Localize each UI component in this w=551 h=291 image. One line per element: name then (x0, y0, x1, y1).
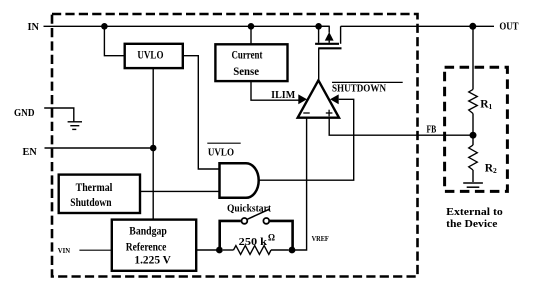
wire IN to current sense input (250, 26, 252, 44)
svg-text:Current: Current (232, 50, 263, 62)
svg-text:GND: GND (14, 107, 35, 119)
svg-text:250 k: 250 k (239, 237, 267, 248)
wire VIN to bandgap (79, 249, 111, 251)
label ILIM (271, 90, 296, 101)
gate AND (220, 163, 259, 198)
wire OUT to R1 (472, 26, 474, 89)
label R1 (480, 99, 492, 112)
ground symbol (GND pin) (68, 122, 82, 130)
svg-text:Thermal: Thermal (76, 182, 113, 194)
switch quickstart branch (220, 209, 293, 250)
block thermal shutdown (59, 175, 140, 213)
svg-text:Bandgap: Bandgap (129, 225, 167, 237)
wire UVLO output to AND gate top input (183, 56, 220, 169)
block UVLO (125, 44, 183, 68)
label SHUTDOWN with overline (332, 82, 403, 94)
svg-text:Shutdown: Shutdown (70, 197, 112, 209)
node EN junction (150, 145, 157, 152)
pin label OUT (499, 22, 518, 33)
label Quickstart (227, 203, 271, 214)
svg-text:External to: External to (446, 207, 503, 218)
svg-text:VREF: VREF (312, 235, 329, 243)
resistor R2 (vertical zigzag) (469, 135, 478, 182)
resistor R1 (vertical zigzag) (469, 89, 478, 135)
external divider dashed box (445, 67, 508, 191)
block bandgap reference (112, 220, 196, 271)
wire UVLO bottom / EN net down to bandgap (152, 68, 154, 220)
svg-text:the Device: the Device (446, 219, 498, 230)
pin label EN (23, 146, 37, 158)
svg-text:FB: FB (427, 124, 437, 135)
pin label VIN (58, 246, 71, 255)
label 250 k Ohm (239, 232, 275, 248)
wire current sense output (ILIM) (251, 81, 302, 100)
wire error amp non-inverting input to FB (329, 118, 473, 136)
node quickstart left junction (216, 247, 223, 254)
wire PMOS gate to error amp output (318, 48, 320, 81)
pin label FB (427, 124, 437, 135)
svg-text:Reference: Reference (126, 241, 167, 253)
wire EN (45, 147, 154, 149)
pin label IN (28, 21, 40, 33)
transistor PMOS pass element (315, 26, 341, 48)
svg-text:Ω: Ω (268, 232, 275, 242)
wire VREF node to error amp inverting input (292, 118, 307, 250)
label External to the Device (446, 207, 503, 230)
svg-text:ILIM: ILIM (271, 90, 296, 101)
svg-text:1.225 V: 1.225 V (134, 255, 171, 267)
svg-text:VIN: VIN (58, 246, 71, 255)
svg-text:Sense: Sense (233, 66, 259, 78)
node IN/current-sense junction (248, 23, 255, 30)
wire IN rail (44, 25, 330, 27)
node IN/PMOS-source junction (315, 23, 322, 30)
svg-text:OUT: OUT (499, 22, 518, 33)
label R2 (485, 163, 497, 176)
svg-text:Quickstart: Quickstart (227, 203, 271, 214)
arrowhead SHUTDOWN into error amp (330, 94, 339, 104)
svg-text:UVLO: UVLO (137, 50, 163, 62)
svg-text:EN: EN (23, 146, 37, 158)
wire OUT rail (341, 25, 494, 27)
label VREF (312, 235, 329, 243)
arrowhead ILIM into error amp (298, 94, 307, 104)
svg-text:SHUTDOWN: SHUTDOWN (332, 84, 387, 95)
svg-text:IN: IN (28, 21, 40, 33)
resistor 250k (horizontal zigzag) (223, 246, 289, 255)
node IN/UVLO junction (101, 23, 108, 30)
wire bandgap output (196, 249, 219, 251)
wire IN to UVLO input (104, 28, 124, 56)
label UVLO-bar (AND input) with overline (207, 143, 240, 158)
svg-text:UVLO: UVLO (208, 147, 234, 158)
node OUT/R1 junction (469, 23, 476, 30)
wire SHUTDOWN from AND gate output (259, 99, 354, 180)
node FB/R1/R2 junction (470, 132, 477, 139)
block current sense (215, 44, 287, 81)
op-amp error amplifier (triangle up) (298, 80, 339, 117)
pin label GND (14, 107, 35, 119)
wire thermal shutdown output to AND bottom input (140, 190, 220, 192)
node quickstart right junction (289, 247, 296, 254)
ground symbol (external divider) (463, 183, 483, 187)
device boundary dashed box (52, 14, 418, 277)
wire GND (44, 108, 74, 122)
